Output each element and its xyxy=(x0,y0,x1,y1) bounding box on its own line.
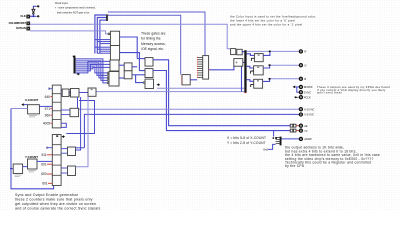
wire FF3 out xyxy=(263,79,270,82)
inverted input bubbles U26 xyxy=(69,90,71,96)
wire Y counter out xyxy=(37,160,52,162)
bus bar B1 xyxy=(244,50,246,93)
fan wire 7 xyxy=(76,64,111,71)
wire U6 out xyxy=(132,66,137,68)
wire adder drop to sync net xyxy=(241,66,243,91)
output connector B xyxy=(299,77,302,80)
junction Y stack top xyxy=(56,135,58,136)
wire R net xyxy=(271,50,300,52)
wire clk net B to register xyxy=(108,15,181,74)
input connector DATA-IN xyxy=(27,27,30,30)
tunnel /OE xyxy=(157,83,160,86)
tap b3 xyxy=(100,50,111,52)
fan wire 6 xyxy=(76,67,111,69)
input connector CLK xyxy=(27,15,30,18)
svg-text:and of course generate the cor: and of course generate the correct Sync … xyxy=(15,207,100,210)
inverted input bubbles U5 xyxy=(107,72,109,84)
stub cell4 out xyxy=(61,114,70,116)
mux gate U12 xyxy=(231,49,236,55)
splitter S3 body xyxy=(74,57,76,74)
svg-text:Y-COUNT: Y-COUNT xyxy=(25,155,38,159)
nand gate U7 xyxy=(124,71,132,79)
wire U22 to Y counter xyxy=(23,166,28,168)
wire clk net A to splitter xyxy=(108,12,205,56)
svg-text:511: 511 xyxy=(42,153,47,157)
svg-text:X = bits 5-8 of X-COUNT: X = bits 5-8 of X-COUNT xyxy=(227,136,266,140)
d flip-flop U17 xyxy=(254,79,263,88)
stub 3 xyxy=(48,88,52,90)
wire COLORBURST net xyxy=(30,24,231,48)
wire FF1 out xyxy=(263,51,270,55)
wire U26 out xyxy=(79,92,88,94)
wire left run down xyxy=(11,109,54,189)
stub Y cell4 out b xyxy=(61,172,67,174)
sync gate U21 xyxy=(88,88,96,96)
wire U24 out xyxy=(76,147,85,149)
wire bus top to junction R xyxy=(247,50,271,52)
svg-text:won't need these: won't need these xyxy=(317,91,342,95)
svg-text:These gates are: These gates are xyxy=(141,32,166,36)
wire U7 branch to U10 xyxy=(136,75,145,83)
stub AE red xyxy=(296,125,299,127)
junction splitter S3 top xyxy=(73,56,76,58)
stub Y cell4 out a xyxy=(61,167,67,169)
svg-text:AE: AE xyxy=(303,124,308,128)
svg-text:601: 601 xyxy=(42,182,48,186)
driver pair AE xyxy=(290,124,296,127)
enable gate U22 xyxy=(13,164,22,174)
output connector V-SYNC xyxy=(299,113,302,116)
svg-text:X-COUNT: X-COUNT xyxy=(25,98,38,102)
svg-text:960: 960 xyxy=(45,113,51,117)
and gate U5 xyxy=(109,72,119,87)
wire CLK to junction xyxy=(30,15,36,17)
wire U21 side drop to Y stack xyxy=(66,101,94,134)
label gate U22 xyxy=(15,175,22,177)
junction B xyxy=(269,78,271,80)
stub 4005 xyxy=(50,122,52,124)
wire U8 out / AE riser xyxy=(153,60,290,126)
wire SYNC net to bus xyxy=(96,91,244,93)
counter U23 xyxy=(28,159,38,169)
fan wire 4 xyxy=(76,65,109,76)
not gate U1 xyxy=(32,9,35,15)
tunnel PCLK arrow xyxy=(295,96,299,98)
pin S1 out xyxy=(209,69,210,70)
wire bus to FF3 xyxy=(247,80,254,82)
wire bus to FF1 xyxy=(247,54,255,56)
tap b4 xyxy=(97,52,110,54)
svg-text:/OE signal, etc.: /OE signal, etc. xyxy=(141,47,164,51)
wire U10 out to bus xyxy=(157,87,244,89)
wire Y0 to merger xyxy=(273,131,275,137)
wire to Y enable xyxy=(11,168,13,170)
svg-text:get outputted when they are vi: get outputted when they are visible on s… xyxy=(15,202,96,206)
and gate U2 xyxy=(110,31,119,45)
driver pair Y0 xyxy=(290,129,296,132)
wire FF2 out xyxy=(263,65,269,68)
svg-text:PCLK: PCLK xyxy=(304,95,311,99)
junction on CLK net xyxy=(32,15,34,17)
wire U2 out xyxy=(120,37,138,59)
wire U13 out xyxy=(242,51,244,53)
stub 0x0 xyxy=(268,144,275,149)
wire U3 out xyxy=(120,53,145,71)
wire junction up to NOT gate U1 xyxy=(32,14,34,16)
bus merger M0 xyxy=(106,14,108,21)
wire ADDR net xyxy=(282,138,300,140)
wire bus to FF2 xyxy=(247,66,254,68)
svg-text:B: B xyxy=(304,77,306,81)
tap a1 xyxy=(95,39,111,41)
wire B net xyxy=(271,78,300,80)
wire U14 out xyxy=(243,61,245,63)
wire X counter feed xyxy=(11,108,28,110)
d flip-flop U15 xyxy=(254,54,263,62)
tunnel BLANK feed xyxy=(293,86,296,89)
and gate U4 xyxy=(110,60,119,71)
junction left run xyxy=(10,168,12,170)
tap a2 xyxy=(97,41,110,43)
stub 571 xyxy=(50,108,52,110)
inverted input bubble U10 xyxy=(143,82,145,84)
fan wire 5 xyxy=(76,67,109,73)
clock stub FF2 xyxy=(251,71,254,74)
tap b2 xyxy=(97,48,110,50)
merger S2 pins xyxy=(276,138,280,144)
output connector Y0 xyxy=(299,129,302,132)
svg-text:for timing the: for timing the xyxy=(141,37,161,41)
merger S2 body xyxy=(280,137,282,146)
stub Y0 red xyxy=(296,130,299,132)
svg-text:Memory access,: Memory access, xyxy=(141,42,166,46)
svg-text:SYNC: SYNC xyxy=(304,90,312,94)
input connector COLORBURST xyxy=(27,22,30,25)
stub 602 xyxy=(48,182,52,184)
svg-text:BLANK: BLANK xyxy=(304,85,313,89)
and gate U26 xyxy=(71,89,80,98)
svg-text:601: 601 xyxy=(41,162,47,166)
svg-text:571: 571 xyxy=(45,107,51,111)
svg-text:V-SYNC: V-SYNC xyxy=(304,113,314,117)
svg-text:these 2 counters make sure tha: these 2 counters make sure that pixels o… xyxy=(15,198,93,202)
svg-text:+ - some components need it in: + - some components need it inverted, xyxy=(55,7,96,10)
wire X stack bottom loop xyxy=(61,123,66,127)
inverted input bubble U2 xyxy=(108,33,110,35)
svg-text:0x0: 0x0 xyxy=(263,148,268,152)
register U11 xyxy=(182,75,190,85)
wire S1 out to adder xyxy=(209,66,234,70)
stub 601 xyxy=(47,163,52,165)
output connector /PCLK xyxy=(299,96,302,99)
stub Y cell2 out a xyxy=(61,148,67,150)
output connector H-SYNC xyxy=(299,108,302,111)
wire clk riser b xyxy=(97,18,106,54)
wire U11 out xyxy=(190,79,197,81)
junction G xyxy=(269,64,271,66)
wire H-SYNC net xyxy=(79,108,300,110)
comparator out gate U25 xyxy=(68,166,76,176)
svg-text:ADDR: ADDR xyxy=(303,137,312,141)
stub 960 xyxy=(50,114,52,116)
junction R xyxy=(269,51,271,53)
svg-text:Sync and Output Enable generat: Sync and Output Enable generation xyxy=(15,193,78,197)
output connector ADDR xyxy=(299,137,302,140)
svg-text:R: R xyxy=(304,50,306,54)
stub 640 xyxy=(50,96,52,98)
wire tunnel to BLANK xyxy=(296,86,300,88)
svg-text:4005: 4005 xyxy=(43,122,50,126)
tap a3 xyxy=(100,43,111,45)
and gate U9 xyxy=(145,69,153,78)
svg-text:600: 600 xyxy=(41,172,47,176)
comparator stack X xyxy=(52,85,61,128)
clock stub FF3 xyxy=(251,84,254,87)
output connector G xyxy=(299,64,302,67)
fan wire 2 xyxy=(76,61,109,81)
svg-text:and the upper 4 bits set the c: and the upper 4 bits set the color for a… xyxy=(230,23,303,27)
stub cell1 out xyxy=(61,90,62,92)
nand gate U10 xyxy=(145,79,154,88)
wire X counter out xyxy=(39,105,52,107)
and gate U3 xyxy=(110,46,119,61)
tunnel /CLK xyxy=(36,5,39,8)
wire V-SYNC net xyxy=(84,114,299,147)
splitter S1 pins xyxy=(197,58,202,78)
wire BLANK to SYNC link xyxy=(297,87,300,92)
wire U5 out xyxy=(119,77,124,79)
wire DATA-IN net xyxy=(30,31,108,34)
svg-text:640: 640 xyxy=(45,95,51,99)
tunnel X clock xyxy=(21,103,24,106)
wire U26 drop to U20 xyxy=(77,97,79,108)
counter U18 xyxy=(28,105,40,114)
svg-text:COLORBURST: COLORBURST xyxy=(9,21,27,25)
svg-text:that's what the NOT gate is fo: that's what the NOT gate is for. xyxy=(57,11,90,14)
comparator out gate U19 xyxy=(62,89,69,97)
fan wire 3 xyxy=(76,63,109,78)
clock stub FF1 xyxy=(251,58,254,61)
wire U26 drop to U24 xyxy=(76,97,81,150)
wire U25 out riser xyxy=(76,97,89,167)
wire U6/U2 junction drop xyxy=(137,58,145,60)
stub Y cell2 out b xyxy=(61,152,67,154)
nand gate U6 xyxy=(124,63,132,71)
wire tunnel to X counter xyxy=(24,104,28,106)
stub 511 xyxy=(47,154,52,156)
mux gate U13 xyxy=(237,49,242,55)
stub 0 xyxy=(46,147,52,149)
junction merger b xyxy=(275,137,277,139)
wire U1 input from tunnel xyxy=(33,6,36,8)
splitter S1 body xyxy=(203,56,209,80)
tunnel CLK xyxy=(36,15,39,18)
svg-text:by the CPU: by the CPU xyxy=(285,164,305,168)
tap b1 xyxy=(95,46,111,48)
stub cell2 out xyxy=(61,94,62,96)
comparator stack Y xyxy=(52,135,61,186)
fan wire 8 xyxy=(76,61,111,73)
tunnel S3 xyxy=(76,73,79,76)
adder U14 xyxy=(234,59,243,67)
svg-text:Y = bits 2-8 of Y-COUNT: Y = bits 2-8 of Y-COUNT xyxy=(227,141,266,145)
stub cell3 out xyxy=(61,109,70,111)
output connector /SYNC xyxy=(299,91,302,94)
wire U4 out xyxy=(119,64,124,66)
stub 600 xyxy=(47,173,52,175)
junction merger a xyxy=(273,137,275,139)
comparator out gate U24 xyxy=(68,147,76,156)
svg-text:DATA-IN: DATA-IN xyxy=(16,26,26,30)
tunnel Y stack xyxy=(62,135,65,138)
svg-text:Y0: Y0 xyxy=(304,129,308,133)
d flip-flop U16 xyxy=(254,66,264,75)
output connector /BLANK xyxy=(299,85,302,88)
output connector AE xyxy=(299,124,302,127)
wire U9 out / Y0 riser xyxy=(153,71,290,131)
svg-text:H-SYNC: H-SYNC xyxy=(304,107,314,111)
fan wire 1 xyxy=(76,59,109,83)
wire clk riser c xyxy=(100,20,106,53)
wire G net xyxy=(271,64,300,66)
label counter U18 xyxy=(29,115,37,117)
comparator out gate U20 xyxy=(70,108,79,116)
output connector R xyxy=(299,50,302,53)
svg-text:CLK: CLK xyxy=(20,14,25,18)
and gate U8 xyxy=(145,58,153,67)
wire U19 out xyxy=(69,92,71,94)
wire U7 out xyxy=(132,74,145,76)
wire clk riser a xyxy=(95,15,106,54)
svg-text:Clock input: Clock input xyxy=(55,1,68,5)
label counter U23 xyxy=(29,170,37,172)
